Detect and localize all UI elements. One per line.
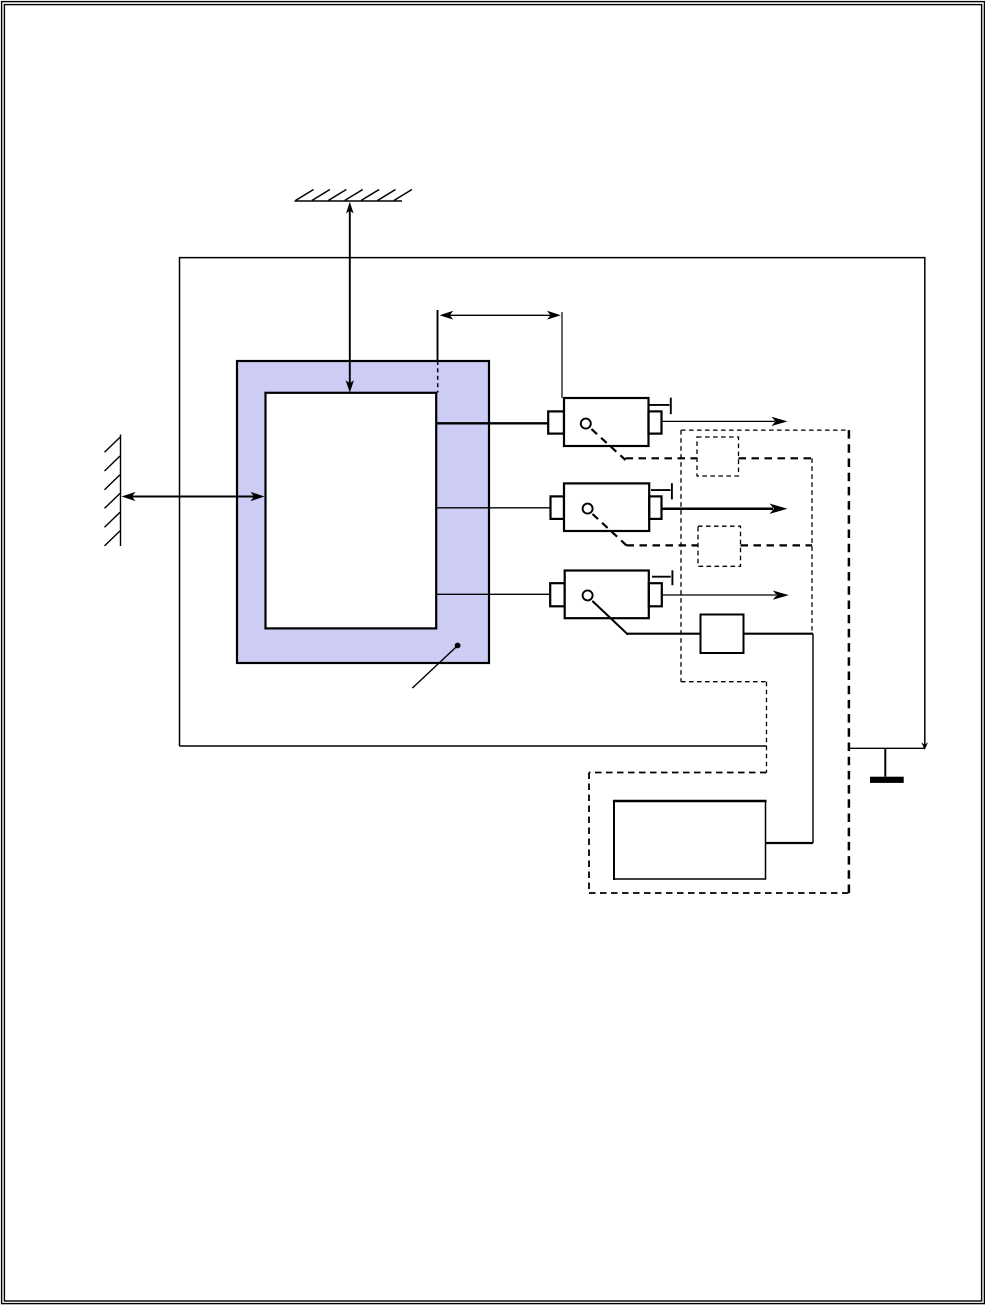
dimension extension line left (solid part) <box>437 310 439 361</box>
small down arrowhead at boundary bottom-right corner <box>921 742 928 750</box>
valve V3 <box>550 570 672 634</box>
valve V2 <box>551 483 672 545</box>
thin line frame to valve V3 <box>436 593 550 595</box>
power unit dashed box left <box>588 773 590 894</box>
pump box heavy top edge <box>613 800 767 802</box>
power unit dashed box top <box>589 772 767 774</box>
dashed controller box small 1 <box>697 437 739 476</box>
output arrow from V3 <box>662 591 789 600</box>
system boundary bottom edge left segment <box>180 745 767 747</box>
pilot dashed line from V1 <box>626 457 698 459</box>
power unit dashed box bottom <box>589 892 849 894</box>
solid bus vertical to pump <box>812 634 814 843</box>
dashed controller box small 2 <box>698 526 741 566</box>
leader dot on frame <box>455 643 461 649</box>
dimension double arrow <box>440 311 561 320</box>
thin line frame to valve V2 <box>436 507 551 509</box>
system boundary bottom edge right segment <box>849 747 925 749</box>
leader line <box>412 647 455 688</box>
vertical double arrow ceiling-to-frame <box>346 202 354 393</box>
pump box <box>614 801 766 879</box>
left wall hatched surface <box>105 435 121 547</box>
bold output arrow from V2 <box>662 504 788 514</box>
dashed group enclosure top edge <box>681 429 849 431</box>
pump box heavy left edge <box>613 800 615 880</box>
pilot dashed line from V2 <box>627 544 699 546</box>
dashed group enclosure left edge <box>680 430 682 682</box>
horizontal double arrow wall-to-frame <box>122 492 265 501</box>
system boundary rectangle (left, top, right edges) <box>180 258 925 747</box>
valve V1 <box>548 398 671 460</box>
ground bar <box>870 777 904 783</box>
dashed enclosure heavy right edge <box>848 430 851 893</box>
dashed group enclosure jog horizontal <box>681 681 767 683</box>
dashed group enclosure jog vertical <box>766 682 768 773</box>
control solid line from V3 <box>627 633 701 635</box>
frame inner opening (white) <box>266 393 437 629</box>
thin dashed pilot bus vertical <box>811 458 813 630</box>
output arrow from V1 <box>662 417 788 426</box>
inertial mass frame (blue) <box>237 361 489 663</box>
bold supply line frame to valve V1 <box>436 422 548 424</box>
pump connection line <box>766 842 814 844</box>
dimension extension line right / feed line to valve V1 <box>561 312 563 398</box>
ceiling anchor hatched surface <box>295 190 412 202</box>
solid interface box on V3 line <box>701 615 744 654</box>
dimension extension line left (dashed part) <box>437 361 439 393</box>
ground stem <box>884 748 886 776</box>
